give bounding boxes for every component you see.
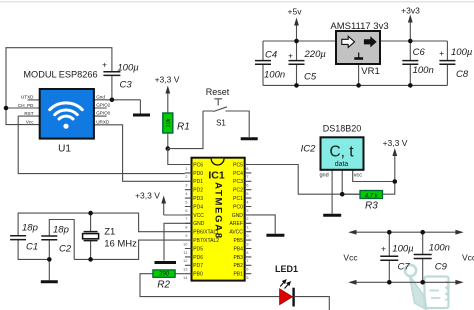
svg-text:C9: C9: [435, 262, 448, 273]
svg-text:GPIO0: GPIO0: [96, 111, 110, 116]
svg-text:PB4: PB4: [233, 246, 243, 252]
svg-text:22: 22: [244, 216, 249, 221]
svg-text:PD1: PD1: [193, 179, 203, 185]
svg-text:C4: C4: [265, 50, 277, 61]
svg-text:+3,3 V: +3,3 V: [155, 75, 180, 85]
svg-text:C6: C6: [413, 47, 426, 58]
svg-text:RST: RST: [24, 111, 33, 116]
svg-text:vcc: vcc: [354, 173, 363, 179]
svg-text:100n: 100n: [429, 243, 450, 254]
svg-text:Vcc: Vcc: [343, 253, 358, 263]
svg-text:+3,3 V: +3,3 V: [383, 138, 408, 148]
svg-text:R3: R3: [365, 201, 378, 212]
svg-text:100n: 100n: [264, 70, 285, 81]
svg-text:CH_PD: CH_PD: [18, 103, 34, 108]
svg-text:UTXD: UTXD: [21, 95, 34, 100]
svg-text:27: 27: [244, 174, 249, 179]
svg-text:25: 25: [244, 191, 249, 196]
svg-text:10k: 10k: [166, 118, 172, 127]
svg-text:PD3: PD3: [193, 196, 203, 202]
svg-text:Gnd: Gnd: [96, 95, 105, 100]
svg-text:VR1: VR1: [361, 66, 379, 77]
svg-text:+3v3: +3v3: [401, 6, 420, 16]
svg-text:data: data: [335, 161, 349, 168]
svg-text:17: 17: [244, 258, 249, 263]
svg-text:R1: R1: [177, 122, 190, 133]
svg-text:IC1: IC1: [208, 170, 225, 182]
svg-text:PB1: PB1: [233, 272, 243, 278]
svg-text:18: 18: [244, 250, 249, 255]
svg-text:PD4: PD4: [193, 204, 203, 210]
svg-text:16 MHz: 16 MHz: [104, 239, 137, 250]
svg-text:100n: 100n: [413, 65, 434, 76]
svg-text:URXD: URXD: [96, 119, 110, 124]
svg-text:PB0: PB0: [193, 272, 203, 278]
svg-text:23: 23: [244, 208, 249, 213]
svg-text:GND: GND: [193, 221, 205, 227]
svg-text:+: +: [102, 60, 107, 70]
svg-text:14: 14: [183, 275, 188, 280]
svg-text:PD2: PD2: [193, 188, 203, 194]
svg-text:PB7/XTAL2: PB7/XTAL2: [193, 238, 219, 244]
svg-text:C7: C7: [398, 262, 411, 273]
svg-text:PB3: PB3: [233, 255, 243, 261]
svg-text:C2: C2: [59, 244, 72, 255]
svg-text:PD0: PD0: [193, 171, 203, 177]
svg-text:AREF: AREF: [230, 221, 243, 227]
svg-text:Vcc: Vcc: [26, 119, 34, 124]
svg-text:PC3: PC3: [233, 179, 243, 185]
svg-text:VCC: VCC: [193, 213, 204, 219]
svg-text:PC4: PC4: [233, 171, 243, 177]
svg-text:PC0: PC0: [233, 204, 243, 210]
svg-text:Z1: Z1: [104, 227, 115, 238]
svg-text:Vcc: Vcc: [462, 253, 474, 263]
svg-text:100µ: 100µ: [451, 47, 473, 58]
svg-text:13: 13: [183, 267, 188, 272]
svg-text:PC1: PC1: [233, 196, 243, 202]
svg-text:26: 26: [244, 183, 249, 188]
svg-text:Reset: Reset: [206, 87, 230, 97]
svg-text:C5: C5: [304, 72, 317, 83]
svg-text:PD5: PD5: [193, 246, 203, 252]
svg-text:C1: C1: [26, 242, 38, 253]
svg-text:AVCC: AVCC: [229, 230, 243, 236]
svg-text:24: 24: [244, 199, 249, 204]
svg-text:16: 16: [244, 267, 249, 272]
svg-text:15: 15: [244, 275, 249, 280]
svg-text:390: 390: [159, 272, 170, 278]
svg-text:19: 19: [244, 241, 249, 246]
svg-text:U1: U1: [58, 144, 71, 155]
svg-text:PD7: PD7: [193, 263, 203, 269]
svg-text:GND: GND: [232, 213, 244, 219]
svg-text:PD6: PD6: [193, 255, 203, 261]
svg-text:PB2: PB2: [233, 263, 243, 269]
svg-text:C3: C3: [120, 80, 133, 91]
svg-text:PB5: PB5: [233, 238, 243, 244]
svg-text:28: 28: [244, 166, 249, 171]
svg-text:PC6: PC6: [193, 162, 203, 168]
svg-text:+: +: [381, 244, 386, 254]
svg-text:GPIO2: GPIO2: [96, 103, 110, 108]
svg-text:12: 12: [183, 258, 188, 263]
svg-text:100µ: 100µ: [392, 244, 414, 255]
svg-text:PC2: PC2: [233, 188, 243, 194]
svg-text:MODUL ESP8266: MODUL ESP8266: [23, 70, 97, 80]
svg-text:gnd: gnd: [320, 173, 329, 179]
svg-text:S1: S1: [216, 119, 226, 128]
svg-text:+3,3 V: +3,3 V: [135, 191, 160, 201]
svg-text:R2: R2: [157, 280, 170, 291]
svg-text:10: 10: [183, 241, 188, 246]
svg-text:220µ: 220µ: [304, 49, 327, 60]
svg-text:LED1: LED1: [275, 264, 298, 274]
svg-text:+: +: [439, 48, 444, 58]
svg-text:100µ: 100µ: [117, 63, 139, 74]
svg-text:4,7 k: 4,7 k: [365, 193, 379, 199]
svg-text:+5v: +5v: [288, 7, 303, 17]
svg-text:C, t: C, t: [329, 144, 354, 161]
svg-text:18p: 18p: [53, 225, 69, 236]
svg-text:PC5: PC5: [233, 162, 243, 168]
svg-text:+: +: [288, 51, 293, 61]
svg-text:DS18B20: DS18B20: [323, 124, 362, 134]
svg-text:IC2: IC2: [301, 144, 317, 155]
svg-text:21: 21: [244, 225, 249, 230]
svg-text:AMS1117 3v3: AMS1117 3v3: [330, 21, 388, 32]
svg-text:18p: 18p: [22, 223, 38, 234]
svg-text:20: 20: [244, 233, 249, 238]
svg-text:PB6/XTAL1: PB6/XTAL1: [193, 230, 219, 236]
svg-text:C8: C8: [456, 69, 469, 80]
